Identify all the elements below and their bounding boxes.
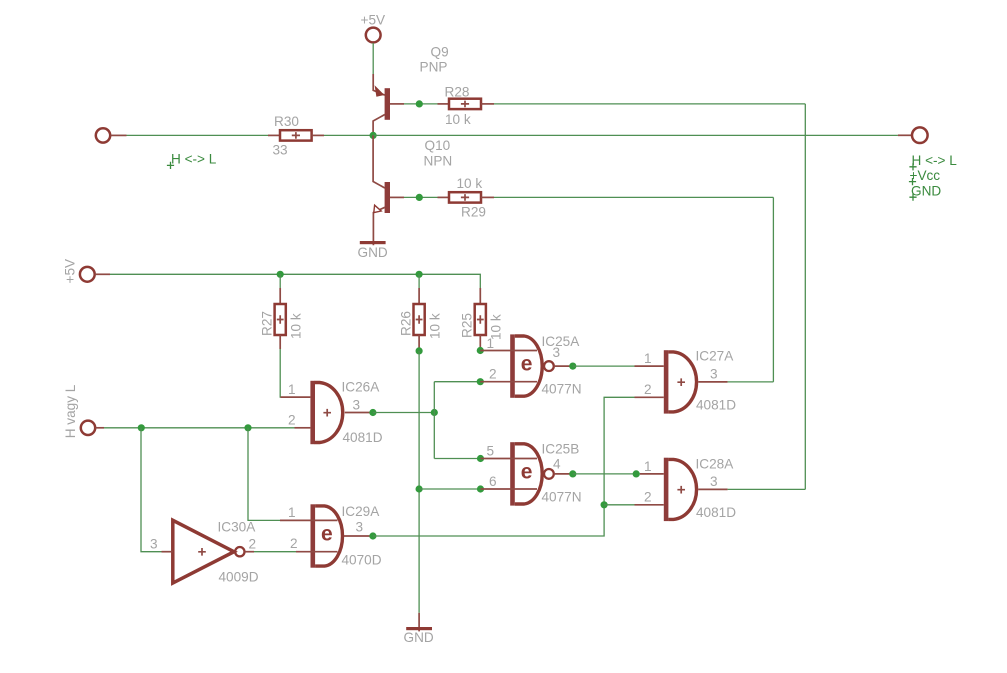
svg-text:R27: R27 (260, 311, 275, 336)
resistor R3 (R29) (438, 192, 495, 202)
Q10 emitter arrow open (374, 205, 381, 212)
transistor Q2 (Q9 PNP) (373, 74, 404, 135)
svg-text:4081D: 4081D (696, 505, 736, 520)
svg-text:H <-> L: H <-> L (912, 153, 958, 168)
junction IC25A out (569, 363, 576, 370)
svg-text:IC25B: IC25B (542, 442, 580, 457)
and-gate IC27A body (635, 350, 728, 413)
svg-text:H vagy L: H vagy L (63, 384, 78, 438)
svg-text:+5V: +5V (361, 13, 386, 28)
svg-text:3: 3 (353, 398, 361, 413)
svg-text:3: 3 (710, 474, 718, 489)
wire R30 to centre node (324, 134, 373, 136)
resistor R1 (R28) (438, 99, 495, 109)
svg-text:Q9: Q9 (431, 45, 449, 60)
IC27A pin 2 (635, 396, 664, 398)
junction IC25B pin6 (477, 485, 484, 492)
svg-text:GND: GND (358, 245, 388, 260)
svg-text:e: e (521, 461, 533, 484)
IC27A output pin (698, 381, 727, 383)
junction HvagyL 1 (138, 424, 145, 431)
IC30A output bubble (235, 547, 244, 556)
IC25A output bubble (544, 361, 554, 371)
IC30A input pin (162, 551, 173, 553)
svg-text:2: 2 (489, 367, 497, 382)
wire +5V to Q9 emitter (372, 43, 374, 74)
svg-text:1: 1 (288, 505, 296, 520)
wire vertical to IC27A output (772, 197, 774, 382)
svg-text:2: 2 (644, 490, 652, 505)
IC25A pin 2 (480, 381, 537, 383)
wire R27 to IC26A pin1 (279, 349, 281, 397)
junction IC25A pin2 (477, 378, 484, 385)
svg-text:IC28A: IC28A (696, 457, 735, 472)
junction IC26A net (431, 409, 438, 416)
svg-text:2: 2 (644, 382, 652, 397)
svg-text:H <-> L: H <-> L (171, 152, 217, 167)
svg-text:1: 1 (288, 382, 296, 397)
svg-text:33: 33 (273, 143, 288, 158)
wire IC27A out (728, 381, 774, 383)
junction centre rail (370, 132, 377, 139)
junction IC28A pin2 (601, 501, 608, 508)
svg-text:4077N: 4077N (542, 382, 582, 397)
label cross right 1 (909, 163, 916, 170)
wire IC29A out to IC27A pin2 (373, 397, 635, 536)
wire centre node to right pin (373, 134, 898, 136)
IC30A output pin (245, 551, 255, 553)
Q10 body bar (385, 182, 390, 213)
wire Q10 base to R29 (404, 196, 438, 198)
resistor R26 (414, 274, 425, 351)
Q9 collector pin (373, 115, 385, 136)
IC25B output bubble (544, 469, 554, 479)
resistor R27 (275, 274, 286, 349)
svg-text:e: e (521, 353, 533, 376)
IC25A pin 1 (480, 350, 537, 352)
Q9 emitter arrow (375, 85, 385, 97)
svg-text:Q10: Q10 (425, 138, 451, 153)
svg-text:NPN: NPN (424, 154, 453, 169)
svg-text:IC25A: IC25A (542, 334, 581, 349)
wire IC25B out to IC28A pin1 (573, 473, 640, 475)
svg-text:3: 3 (356, 520, 364, 535)
Q10 collector pin (373, 135, 385, 188)
xnor-gate IC25B body (481, 442, 573, 505)
wire IC26A net vertical (433, 382, 435, 459)
junction IC29A out (369, 532, 376, 539)
wire H vagy L to IC30A input (141, 428, 162, 552)
svg-text:4081D: 4081D (343, 430, 383, 445)
IC25B output pin (554, 473, 573, 475)
junction HvagyL 2 (244, 424, 251, 431)
wire IC28A out (728, 488, 806, 490)
junction R26 net pin6 (416, 485, 423, 492)
svg-text:4: 4 (553, 457, 561, 472)
IC28A output pin (698, 488, 727, 490)
IC28A pin 2 (635, 504, 664, 506)
svg-text:+Vcc: +Vcc (910, 168, 941, 183)
junction IC25B pin5 (477, 455, 484, 462)
junction rail R26 (416, 271, 423, 278)
label cross right 3 (909, 194, 916, 201)
svg-text:GND: GND (911, 184, 941, 199)
svg-text:4009D: 4009D (219, 570, 259, 585)
svg-text:PNP: PNP (420, 59, 448, 74)
xnor-gate IC25A body (480, 334, 573, 397)
svg-text:IC29A: IC29A (342, 504, 381, 519)
IC29A output pin (344, 535, 373, 537)
supply +5V bottom pin circle (80, 267, 95, 282)
Q9 body bar (385, 88, 390, 120)
wire Q9 base to R28 (404, 103, 438, 105)
svg-text:2: 2 (249, 537, 257, 552)
Q10 emitter pin (373, 207, 384, 245)
svg-text:2: 2 (290, 536, 298, 551)
wire H vagy L rail (104, 427, 295, 429)
pin H vagy L (81, 421, 95, 435)
svg-text:e: e (321, 523, 333, 546)
supply +5V top pin circle (366, 28, 381, 43)
IC29A pin 2 (296, 551, 338, 553)
svg-text:4077N: 4077N (542, 490, 582, 505)
pin stub +5V bottom (95, 273, 110, 275)
wire left pin to R30 (111, 134, 127, 136)
ground top (360, 241, 386, 244)
svg-text:+5V: +5V (63, 259, 78, 284)
svg-text:10 k: 10 k (428, 313, 443, 339)
wire IC26A out (373, 412, 434, 414)
IC28A pin 1 (640, 473, 664, 475)
junction IC25B out (569, 470, 576, 477)
svg-text:R28: R28 (445, 85, 470, 100)
right pin stub (898, 134, 912, 136)
junction Q10 base (416, 194, 423, 201)
svg-text:R26: R26 (399, 311, 414, 336)
label cross right 2 (909, 178, 916, 185)
wire IC30A out to IC29A pin2 (254, 551, 296, 553)
svg-text:GND: GND (404, 630, 434, 645)
and-gate IC26A body (281, 381, 373, 444)
svg-text:5: 5 (487, 444, 495, 459)
junction IC26A out (369, 409, 376, 416)
svg-text:IC27A: IC27A (696, 349, 735, 364)
wire IC25A out to IC27A pin1 (573, 365, 635, 367)
junction IC28A pin1 (633, 470, 640, 477)
wire to IC28A pin2 (604, 504, 634, 506)
pin left H<->L (96, 128, 110, 142)
IC25B pin 5 (481, 458, 538, 460)
svg-text:3: 3 (710, 367, 718, 382)
resistor R2 (R30) (268, 130, 324, 140)
junction rail R27 (277, 271, 284, 278)
Q10 base pin (390, 196, 404, 198)
svg-text:10 k: 10 k (457, 176, 483, 191)
svg-text:R30: R30 (274, 114, 299, 129)
IC25B pin 6 (481, 488, 538, 490)
wire to IC25A pin2 (434, 381, 480, 383)
svg-text:6: 6 (489, 474, 497, 489)
IC27A pin 1 (635, 365, 664, 367)
svg-text:10 k: 10 k (445, 112, 471, 127)
IC29A pin 1 (280, 519, 338, 521)
svg-text:3: 3 (150, 536, 158, 551)
IC26A output pin (345, 412, 373, 414)
wire +5V rail bottom (110, 274, 480, 288)
IC25A output pin (554, 365, 573, 367)
svg-text:IC30A: IC30A (218, 520, 257, 535)
svg-text:10 k: 10 k (289, 313, 304, 339)
svg-text:1: 1 (644, 351, 652, 366)
label origin cross left (167, 162, 174, 169)
svg-text:1: 1 (487, 336, 495, 351)
svg-text:2: 2 (288, 413, 296, 428)
ground bottom (406, 627, 432, 630)
pin stub H vagy L (95, 427, 104, 429)
and-gate IC28A body (635, 458, 728, 521)
Q9 base pin (390, 103, 404, 105)
svg-text:IC26A: IC26A (342, 380, 381, 395)
svg-text:4081D: 4081D (696, 398, 736, 413)
Q9 emitter pin (373, 74, 385, 95)
junction Q9 base (416, 100, 423, 107)
transistor Q10 NPN (373, 135, 404, 245)
ground bottom pin (418, 613, 420, 632)
inverter IC30A body (162, 520, 255, 583)
wire H vagy L to IC29A pin1 (248, 428, 280, 521)
junction below R26 (416, 347, 423, 354)
wire vertical right to IC28A output (804, 104, 806, 490)
svg-text:R25: R25 (460, 313, 475, 338)
IC26A pin 2 (295, 427, 311, 429)
wire R26 net to IC25B pin6 (419, 488, 480, 490)
pin right H<->L (912, 127, 928, 143)
junction R25 pin1 (477, 347, 484, 354)
svg-text:R29: R29 (461, 205, 486, 220)
svg-text:4070D: 4070D (342, 553, 382, 568)
wire to IC25B pin5 (434, 458, 480, 460)
xor-gate IC29A body (280, 504, 373, 567)
svg-text:1: 1 (644, 459, 652, 474)
wire R28 to right vertical (494, 103, 805, 105)
wire R29 to right vertical (494, 196, 773, 198)
resistor R25 (475, 288, 486, 351)
wire R26 net down (418, 351, 420, 613)
IC26A pin 1 (281, 396, 311, 398)
